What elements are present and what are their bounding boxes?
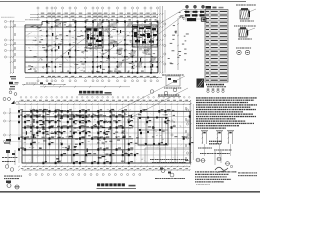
mid-left small detail between plans bbox=[22, 82, 66, 85]
upper plan: left dimension lines bbox=[10, 20, 16, 74]
schedule table title below bbox=[206, 84, 226, 87]
upper plan: faint noise texture bbox=[25, 21, 159, 73]
lower plan: column blocks with labels bbox=[18, 109, 194, 164]
lower plan: left grid bubbles column bbox=[3, 112, 22, 143]
upper plan: title text with underline bbox=[79, 91, 113, 95]
beam detail right of upper plan bbox=[150, 75, 184, 97]
top-right enlarged detail plan bbox=[182, 5, 206, 21]
upper plan: right stair core walls bbox=[133, 25, 158, 47]
left small section detail mid bbox=[9, 76, 19, 95]
bottom-right sheet label text bbox=[215, 172, 257, 182]
upper plan: right side dimension lines bbox=[159, 6, 179, 74]
lower plan: left dimension line bbox=[4, 108, 11, 145]
upper plan: top dimension lines with ticks bbox=[30, 13, 158, 18]
lower plan: faint noise texture bbox=[23, 106, 191, 166]
lower plan: right rooms sub-layout bbox=[138, 117, 190, 164]
upper plan: right annotation specks bbox=[168, 11, 189, 64]
column section detail left of table bottom bbox=[197, 79, 205, 88]
lower plan: top edge stems bbox=[19, 106, 190, 112]
symbol bubbles row under table bbox=[207, 89, 225, 93]
sheet top border line bbox=[0, 0, 246, 2]
upper plan: right side grid bubbles bbox=[164, 23, 166, 65]
paired symbol circles right side bbox=[236, 48, 251, 55]
lower plan: floor grid horizontals bbox=[22, 111, 190, 163]
schedule table cell texts bbox=[206, 11, 227, 81]
lower plan: bottom grid bubbles row bbox=[29, 174, 141, 176]
upper plan: interior annotation specks bbox=[28, 22, 158, 72]
schedule table header text bbox=[206, 6, 224, 9]
lower plan: right side dimension line with bubbles bbox=[186, 100, 194, 165]
small detail cluster left of bottom-right notes bbox=[150, 159, 188, 179]
bottom-right beam elevation details bbox=[198, 131, 234, 165]
upper plan: bottom dimension line bbox=[25, 76, 158, 78]
upper plan: lower secondary dimension line bbox=[40, 86, 130, 88]
lower plan: column grid verticals bbox=[19, 111, 190, 163]
sheet bottom border line bbox=[0, 191, 260, 193]
lower plan: bottom dimension lines bbox=[18, 166, 190, 171]
bottom-right notes small text bbox=[195, 171, 236, 185]
upper plan: central stair core walls bbox=[86, 28, 103, 48]
upper plan: perimeter walls bbox=[25, 22, 158, 73]
upper plan: left grid bubbles column bbox=[4, 20, 25, 58]
column section detail top-right 1 bbox=[236, 5, 256, 22]
upper plan: extra beam labels bbox=[31, 26, 154, 73]
lower plan: top dimension lines bbox=[18, 100, 190, 105]
upper plan: top wall column band bbox=[34, 19, 158, 73]
column section detail top-right 2 bbox=[234, 26, 256, 40]
upper plan: interior leader strokes bbox=[46, 31, 122, 60]
lower plan: title text with underline bbox=[97, 183, 137, 188]
left protrusion detail lower plan bbox=[2, 150, 17, 171]
upper plan: top grid bubbles row bbox=[37, 7, 159, 21]
bottom-right section mark bubbles bbox=[195, 157, 230, 165]
upper plan: column grid verticals bbox=[38, 22, 158, 73]
lower plan: perimeter walls bbox=[22, 111, 190, 163]
upper plan: hatched wall segments bbox=[54, 22, 156, 68]
bottom-left corner detail bbox=[4, 176, 22, 190]
faint corner annotation texts top-left bbox=[1, 17, 40, 20]
diagonal leader lines to notes bbox=[118, 76, 188, 119]
lower plan: interior annotation specks bbox=[24, 109, 189, 162]
lower plan: top grid bubbles row bbox=[16, 97, 191, 105]
upper plan: interior double-line walls bbox=[25, 22, 158, 73]
diagonal leader lines to top-right detail bbox=[136, 9, 184, 45]
bottom-right signature scribble bbox=[215, 165, 233, 172]
upper plan: column blocks at grid intersections bbox=[46, 21, 158, 74]
lower plan: top-left corner bubbles bbox=[3, 98, 15, 105]
upper plan: bottom grid bubbles row bbox=[37, 80, 159, 82]
lower plan: interior double-line walls bbox=[22, 111, 133, 163]
upper plan: floor grid horizontals bbox=[25, 22, 158, 73]
general notes text block bbox=[196, 97, 257, 128]
schedule table grid bbox=[205, 10, 228, 83]
